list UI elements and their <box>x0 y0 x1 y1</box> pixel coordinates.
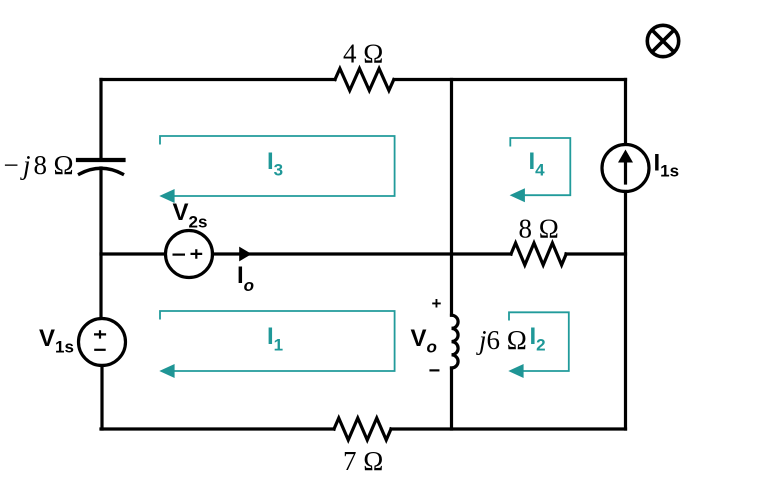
voltage source V1s plus sign <box>94 249 202 349</box>
current source I1s arrow head <box>618 150 633 163</box>
mesh loop I4 <box>510 138 570 195</box>
wire left: capacitor down to V1s source <box>99 168 102 319</box>
arrow Io on middle wire <box>239 247 251 262</box>
svg-text:I1s: I1s <box>654 150 680 181</box>
svg-text:+: + <box>432 294 442 313</box>
wire middle horizontal: 8ohm to right wire <box>566 252 626 255</box>
wire middle horizontal: left wire to V2s <box>101 252 166 255</box>
resistor R 7ohm <box>334 418 391 440</box>
voltage source V1s circle <box>79 319 126 366</box>
svg-text:I1: I1 <box>267 323 283 355</box>
inductor L j6ohm <box>452 315 459 368</box>
wire top: 4ohm to top-right corner <box>394 78 626 81</box>
capacitor C -j8ohm top plate <box>78 158 124 162</box>
svg-text:−j8Ω: −j8Ω <box>4 150 74 180</box>
wire left: top corner down to capacitor <box>99 80 102 159</box>
svg-text:4 Ω: 4 Ω <box>343 39 383 69</box>
wire middle vertical: top wire down to inductor <box>450 80 453 316</box>
svg-text:7 Ω: 7 Ω <box>343 446 383 476</box>
wire middle vertical: inductor to bottom wire <box>450 368 453 429</box>
resistor R 8ohm <box>511 243 566 265</box>
svg-text:Vo: Vo <box>411 325 437 357</box>
voltage source V2s circle <box>166 231 213 278</box>
current source I1s circle <box>602 145 649 192</box>
voltage source V2s minus sign <box>173 254 186 256</box>
wire left: V1s to bottom-left corner <box>100 366 103 430</box>
mesh arrow I2 <box>508 364 523 378</box>
svg-text:8 Ω: 8 Ω <box>519 214 559 244</box>
voltage source V1s minus sign <box>94 349 106 351</box>
mesh loop I1 <box>160 311 395 371</box>
svg-text:j6 Ω: j6 Ω <box>476 325 527 355</box>
svg-text:I4: I4 <box>529 148 546 180</box>
svg-text:V1s: V1s <box>39 325 74 357</box>
svg-text:I2: I2 <box>530 323 546 355</box>
svg-text:−: − <box>429 360 441 382</box>
wire right: I1s to bottom-right corner <box>624 192 627 430</box>
wire bottom: 7ohm to bottom-right corner <box>391 427 626 430</box>
current source I1s arrow shaft <box>624 161 627 183</box>
svg-text:V2s: V2s <box>173 199 208 232</box>
voltage source V2s plus sign <box>191 249 203 258</box>
svg-text:Io: Io <box>237 262 254 295</box>
mesh arrow I1 <box>159 364 174 378</box>
resistor R 4ohm <box>335 69 394 91</box>
wire middle horizontal: V2s to 8ohm <box>213 252 512 255</box>
wire right: top-right corner to I1s source <box>624 80 627 145</box>
mesh arrow I4 <box>510 188 525 202</box>
mesh loop I2 <box>509 312 569 371</box>
svg-text:I3: I3 <box>267 148 283 180</box>
capacitor C -j8ohm curved plate <box>80 168 123 174</box>
mesh loop I3 <box>160 136 570 371</box>
mesh arrow I3 <box>159 189 174 203</box>
wire bottom: left corner to 7ohm <box>101 427 334 430</box>
wire top: left corner to 4ohm resistor <box>101 78 335 81</box>
symbol circled-X top right <box>647 25 678 56</box>
